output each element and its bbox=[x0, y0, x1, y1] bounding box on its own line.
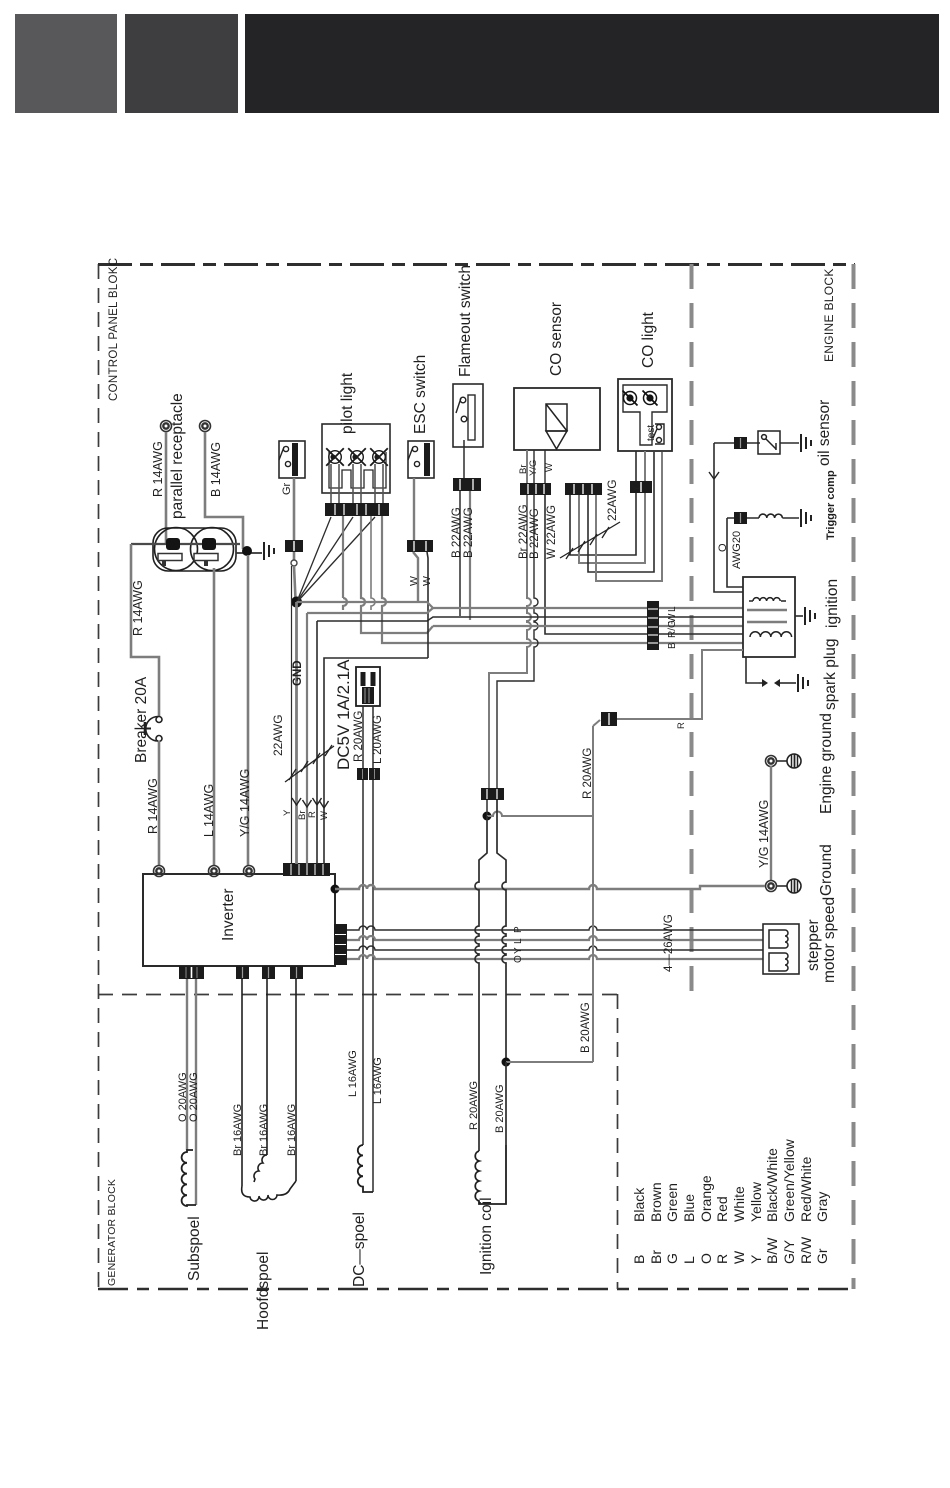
lamp 3 bbox=[370, 448, 388, 466]
svg-text:O: O bbox=[698, 1253, 714, 1264]
svg-text:R/W: R/W bbox=[798, 1236, 814, 1264]
svg-text:R 20AWG: R 20AWG bbox=[468, 1081, 480, 1130]
svg-text:Inverter: Inverter bbox=[220, 888, 237, 941]
svg-text:ignition: ignition bbox=[824, 579, 841, 628]
wire x307 from bus608 down to inverter bbox=[432, 607, 434, 609]
svg-text:L 16AWG: L 16AWG bbox=[372, 1057, 384, 1104]
svg-text:B 20AWG: B 20AWG bbox=[580, 1002, 592, 1053]
B wire from dot right, hop over 497 bbox=[487, 812, 593, 817]
header bar: black bar bbox=[245, 14, 939, 113]
lamp leads bbox=[331, 464, 383, 504]
receptacle pin right bbox=[202, 538, 216, 550]
svg-text:G: G bbox=[664, 1253, 680, 1264]
svg-text:AWG20: AWG20 bbox=[731, 531, 743, 569]
svg-text:Br 16AWG: Br 16AWG bbox=[258, 1104, 270, 1156]
4 wires bbox=[347, 926, 763, 930]
GND wire down to inverter bbox=[295, 602, 298, 864]
lower terminal pair bbox=[766, 881, 777, 892]
dc-spoel coil bbox=[358, 1145, 373, 1192]
svg-text:B 22AWG: B 22AWG bbox=[529, 508, 541, 559]
bus gray from junction y602 jog to 608 bbox=[418, 602, 743, 608]
pilot wires down bbox=[342, 516, 344, 598]
hoofdspoel coil bbox=[254, 1155, 267, 1182]
stepper coil 2 bbox=[769, 953, 788, 971]
R 20AWG wire down to coil bbox=[475, 816, 487, 1151]
svg-text:G/Y: G/Y bbox=[781, 1239, 797, 1264]
svg-text:B: B bbox=[631, 1255, 647, 1264]
junction dot bbox=[291, 597, 302, 608]
ignition coil symbol bbox=[475, 1145, 506, 1204]
svg-text:W: W bbox=[421, 576, 433, 586]
svg-text:P: P bbox=[513, 926, 524, 933]
svg-text:oil sensor: oil sensor bbox=[816, 400, 833, 466]
svg-text:test: test bbox=[646, 425, 657, 441]
LED 1 bbox=[623, 391, 638, 406]
wire Y/G down, hop buses, left to R-connector bbox=[497, 495, 538, 788]
22AWG tick marker bbox=[560, 522, 620, 559]
trigger wire down into ignition bbox=[727, 518, 743, 587]
svg-text:Brown: Brown bbox=[648, 1182, 664, 1222]
svg-text:Green/Yellow: Green/Yellow bbox=[781, 1138, 797, 1222]
outer dashed frame: left border bbox=[98, 264, 100, 1289]
svg-text:L: L bbox=[513, 938, 524, 944]
svg-text:O: O bbox=[513, 955, 524, 963]
svg-text:Breaker 20A: Breaker 20A bbox=[133, 676, 150, 763]
header bar: gray box bbox=[15, 14, 117, 113]
receptacle ground line bbox=[236, 552, 262, 554]
inverter right side connector (stepper) bbox=[334, 924, 347, 965]
thin black companion line bbox=[291, 566, 293, 864]
wire bbox=[727, 517, 759, 519]
svg-text:Br: Br bbox=[648, 1250, 664, 1264]
fan wires from junction to lamps bbox=[298, 517, 375, 601]
svg-text:DC5V 1A/2.1A: DC5V 1A/2.1A bbox=[334, 659, 353, 770]
legend separator vertical bbox=[617, 994, 619, 1289]
svg-text:Ignition coil: Ignition coil bbox=[478, 1197, 495, 1275]
svg-text:CONTROL PANEL BLOKC: CONTROL PANEL BLOKC bbox=[108, 258, 120, 401]
svg-text:Gr: Gr bbox=[281, 482, 293, 495]
pilot wire (thin) bbox=[371, 516, 375, 610]
header bar: dark gray box bbox=[125, 14, 238, 113]
outer dashed frame: bottom border bbox=[98, 1288, 855, 1291]
pilot wire to bus 626 bbox=[361, 516, 433, 633]
svg-text:R 14AWG: R 14AWG bbox=[151, 441, 165, 497]
ground bbox=[801, 434, 811, 452]
svg-text:R 20AWG: R 20AWG bbox=[582, 748, 594, 799]
R connector pair bbox=[481, 788, 504, 800]
inner T outline bbox=[623, 385, 667, 445]
svg-text:Black: Black bbox=[631, 1187, 647, 1222]
inverter bottom connector 4 bbox=[290, 966, 303, 979]
CO light connector bbox=[630, 481, 652, 493]
terminal (R) bbox=[161, 421, 172, 432]
wire x317 black down to inverter bbox=[316, 621, 318, 864]
svg-text:Y: Y bbox=[631, 485, 642, 492]
svg-text:Orange: Orange bbox=[698, 1175, 714, 1222]
oil wire down and into ignition bbox=[714, 443, 743, 592]
svg-text:ESC switch: ESC switch bbox=[412, 355, 429, 434]
svg-text:Subspoel: Subspoel bbox=[186, 1216, 203, 1281]
subspoel coil bbox=[182, 1150, 196, 1206]
LED 2 bbox=[643, 391, 658, 406]
wire to ground bbox=[780, 442, 799, 444]
wire hot exits left and down to breaker bbox=[131, 544, 159, 716]
svg-text:motor speed: motor speed bbox=[821, 897, 838, 983]
svg-text:W: W bbox=[731, 1250, 747, 1264]
svg-text:B 14AWG: B 14AWG bbox=[209, 442, 223, 497]
CO sensor right connector bbox=[565, 483, 602, 495]
inverter terminal 1 bbox=[154, 866, 165, 877]
svg-text:W: W bbox=[408, 576, 420, 586]
generator block separator horizontal bbox=[98, 994, 617, 996]
svg-text:R/G: R/G bbox=[667, 620, 678, 638]
svg-text:parallel receptacle: parallel receptacle bbox=[169, 393, 186, 519]
svg-text:R: R bbox=[676, 722, 687, 729]
svg-text:stepper: stepper bbox=[805, 919, 822, 971]
Y/G wire bbox=[770, 766, 772, 881]
flameout wires bbox=[463, 440, 465, 478]
svg-text:Gr: Gr bbox=[814, 1248, 830, 1264]
disconnect arrow bbox=[709, 472, 719, 479]
flameout connector bbox=[453, 478, 481, 491]
upper terminal pair bbox=[766, 756, 777, 767]
svg-text:R 14AWG: R 14AWG bbox=[146, 778, 160, 834]
ESC connector bbox=[407, 540, 433, 552]
svg-text:Br 16AWG: Br 16AWG bbox=[286, 1104, 298, 1156]
svg-text:O: O bbox=[717, 543, 729, 552]
svg-text:Engine ground: Engine ground bbox=[818, 713, 835, 814]
svg-text:B 22AWG: B 22AWG bbox=[463, 507, 475, 558]
B wire horizontal with dot bbox=[502, 1058, 511, 1067]
wire W2 horizontal y=658 bbox=[324, 658, 428, 864]
ESC wires bbox=[413, 478, 415, 540]
bus black 617 from x317 bbox=[317, 617, 743, 621]
usb wires to DC-spoel bbox=[362, 780, 364, 1145]
svg-text:Y/G 14AWG: Y/G 14AWG bbox=[757, 800, 771, 868]
junction line y=602 bbox=[297, 601, 419, 603]
tick marker 22AWG bbox=[285, 745, 334, 782]
wire B terminal to receptacle bbox=[205, 432, 243, 549]
svg-text:Trigger comp: Trigger comp bbox=[825, 470, 837, 540]
inverter bottom connector 1 (subspoel) bbox=[179, 966, 204, 979]
junction dot bbox=[483, 812, 492, 821]
primary coil bbox=[753, 598, 780, 601]
secondary coil bbox=[750, 632, 792, 637]
engine block separator (gray dashed) bbox=[690, 264, 694, 994]
receptacle pin left bbox=[166, 538, 180, 550]
svg-text:Blue: Blue bbox=[681, 1194, 697, 1222]
Y/G horizontal wire from inverter bbox=[335, 885, 765, 889]
svg-text:White: White bbox=[731, 1186, 747, 1222]
svg-text:GENERATOR BLOCK: GENERATOR BLOCK bbox=[106, 1179, 118, 1286]
receptacle hot line bbox=[131, 543, 240, 545]
disconnect arrows on bundle bbox=[292, 798, 329, 808]
svg-text:R: R bbox=[307, 811, 318, 818]
pilot connector strip bbox=[325, 503, 389, 516]
svg-text:Y: Y bbox=[282, 809, 293, 816]
svg-text:Black/White: Black/White bbox=[764, 1148, 780, 1222]
wire right and up to ignition bbox=[617, 650, 743, 719]
connector bbox=[734, 437, 747, 449]
ignition ground bbox=[795, 615, 803, 617]
inner stepped outline bbox=[329, 452, 386, 488]
subspoel wires bbox=[186, 979, 188, 1150]
receptacle slot right bbox=[194, 554, 218, 567]
ground bbox=[264, 542, 274, 560]
connector on Gr wire bbox=[285, 540, 303, 552]
svg-text:W: W bbox=[319, 811, 330, 820]
connector bbox=[734, 512, 747, 524]
pilot wire to bus 643 (gray) bbox=[382, 516, 743, 643]
svg-text:B 22AWG: B 22AWG bbox=[451, 507, 463, 558]
svg-text:O 20AWG: O 20AWG bbox=[188, 1072, 200, 1122]
svg-text:B 20AWG: B 20AWG bbox=[494, 1085, 506, 1134]
outer dashed frame: right border (gray) bbox=[852, 264, 856, 1289]
svg-text:Hoofdspoel: Hoofdspoel bbox=[255, 1252, 272, 1330]
lamp 1 bbox=[326, 448, 344, 466]
svg-text:4—26AWG: 4—26AWG bbox=[663, 914, 675, 972]
CO sensor wires above connector bbox=[526, 450, 528, 483]
svg-text:Flameout switch: Flameout switch bbox=[457, 265, 474, 377]
breaker 20A bbox=[145, 717, 162, 742]
junction dot bbox=[242, 546, 252, 556]
svg-text:Red: Red bbox=[714, 1196, 730, 1222]
svg-text:Y/G 14AWG: Y/G 14AWG bbox=[238, 769, 252, 837]
svg-text:CO sensor: CO sensor bbox=[548, 302, 565, 376]
receptacle slot left bbox=[158, 554, 182, 567]
receptacle body bbox=[153, 528, 236, 572]
ground bbox=[801, 509, 811, 527]
svg-text:CO light: CO light bbox=[640, 311, 657, 368]
inverter right terminal dot bbox=[331, 885, 340, 894]
inverter terminal 3 bbox=[244, 866, 255, 877]
svg-text:L: L bbox=[667, 606, 678, 612]
wire R terminal to receptacle bbox=[165, 432, 168, 545]
lamp 2 bbox=[348, 448, 366, 466]
core bars bbox=[747, 609, 787, 611]
stepper box bbox=[763, 924, 799, 974]
test switch bbox=[653, 424, 664, 444]
svg-text:Y: Y bbox=[513, 947, 524, 954]
wire bbox=[714, 442, 760, 444]
svg-text:Ground: Ground bbox=[818, 844, 835, 896]
hoofdspoel wires bbox=[241, 979, 243, 1186]
svg-text:L 14AWG: L 14AWG bbox=[202, 784, 216, 837]
svg-text:L: L bbox=[681, 1256, 697, 1264]
wire W down to bus 634 bbox=[545, 495, 743, 634]
CO sensor left connector bbox=[520, 483, 551, 495]
svg-text:GND: GND bbox=[292, 660, 304, 686]
ignition connector (bus) bbox=[647, 601, 659, 650]
svg-text:R: R bbox=[714, 1254, 730, 1264]
svg-text:Gray: Gray bbox=[814, 1192, 830, 1222]
svg-text:L 16AWG: L 16AWG bbox=[347, 1050, 359, 1097]
terminal (B) bbox=[200, 421, 211, 432]
svg-text:Br 16AWG: Br 16AWG bbox=[232, 1104, 244, 1156]
CO U-bundle wires sensor to light bbox=[570, 493, 636, 555]
svg-text:B/W: B/W bbox=[764, 1237, 780, 1264]
usb box bbox=[356, 667, 380, 706]
svg-text:Y: Y bbox=[748, 1254, 764, 1264]
inverter bottom connector 3 bbox=[262, 966, 275, 979]
svg-text:L 20AWG: L 20AWG bbox=[372, 715, 384, 764]
outer dashed frame: top border bbox=[98, 263, 855, 266]
inverter top connector bbox=[283, 863, 330, 876]
wire Y/G ground dot to inverter bbox=[247, 555, 250, 866]
sensor symbol bbox=[546, 404, 567, 449]
svg-text:R 14AWG: R 14AWG bbox=[131, 580, 145, 636]
usb wires down bbox=[362, 706, 364, 768]
wire Gr switch down to junction bbox=[293, 478, 296, 540]
wire breaker to inverter bbox=[158, 741, 161, 866]
svg-text:pilot light: pilot light bbox=[339, 372, 356, 434]
svg-text:spark plug: spark plug bbox=[822, 638, 839, 710]
svg-text:Yellow: Yellow bbox=[748, 1181, 764, 1222]
B wire 497 down jog to 506 bbox=[497, 800, 506, 1062]
inductor bbox=[759, 514, 782, 518]
wire Br down, hop buses, left to R-connector bbox=[489, 495, 531, 788]
R wire vertical 593 bbox=[592, 726, 594, 1062]
wire L receptacle to inverter bbox=[213, 568, 216, 866]
usb connectors bbox=[357, 768, 368, 780]
CO light wires box to connector bbox=[635, 451, 637, 481]
inverter terminal 2 bbox=[209, 866, 220, 877]
svg-text:W 22AWG: W 22AWG bbox=[546, 505, 558, 559]
svg-text:Red/White: Red/White bbox=[798, 1156, 814, 1222]
bus gray 626 hops bbox=[433, 625, 743, 627]
svg-text:B: B bbox=[667, 642, 678, 649]
inverter bottom connector 2 bbox=[236, 966, 249, 979]
svg-text:Green: Green bbox=[664, 1183, 680, 1222]
svg-text:22AWG: 22AWG bbox=[271, 714, 285, 756]
svg-text:ENGINE BLOCK: ENGINE BLOCK bbox=[822, 268, 836, 362]
svg-text:22AWG: 22AWG bbox=[605, 479, 619, 521]
svg-text:DC—spoel: DC—spoel bbox=[351, 1212, 368, 1287]
stepper coil 1 bbox=[769, 930, 788, 948]
oil switch box bbox=[758, 431, 780, 454]
